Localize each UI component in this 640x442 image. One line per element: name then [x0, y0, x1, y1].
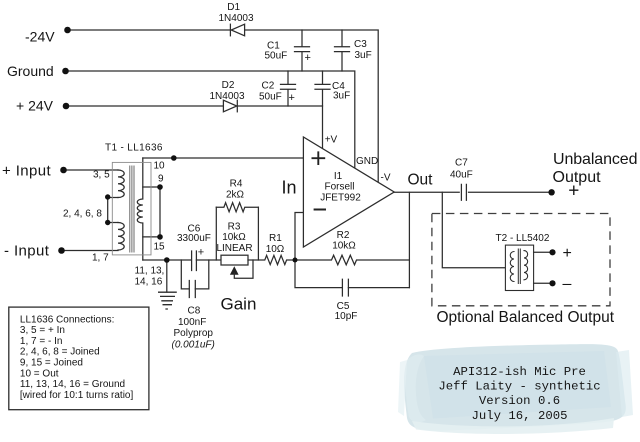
capacitor C6	[192, 251, 197, 271]
wire: - input to T1	[62, 250, 119, 252]
svg-text:3, 5 = + In: 3, 5 = + In	[20, 325, 65, 336]
svg-text:C2: C2	[262, 80, 275, 91]
transformer T2 secondary winding	[524, 251, 528, 280]
svg-text:2, 4, 6, 8: 2, 4, 6, 8	[63, 209, 102, 220]
wire: feedback node up to inverting input	[295, 213, 303, 261]
node: T1 tap upper (2,4,6,8)	[105, 194, 110, 199]
svg-text:14, 16: 14, 16	[135, 277, 163, 288]
svg-text:+ Input: + Input	[2, 163, 52, 180]
svg-text:50uF: 50uF	[259, 92, 282, 103]
wire: +24V rail right segment	[238, 105, 323, 107]
svg-text:D1: D1	[227, 2, 240, 13]
svg-text:+V: +V	[325, 134, 338, 145]
wire: C6 to R3	[196, 259, 221, 261]
wire: pin 9 stub	[143, 186, 160, 188]
transformer T2 primary winding	[510, 252, 514, 282]
svg-text:C8: C8	[188, 306, 201, 317]
wire: T1 tap stub upper	[108, 197, 118, 199]
node: Ground terminal	[62, 68, 69, 75]
wire: feedback riser from Out	[408, 192, 410, 287]
svg-text:D2: D2	[222, 80, 235, 91]
svg-text:10kΩ: 10kΩ	[222, 232, 246, 243]
svg-text:+: +	[198, 246, 204, 258]
svg-text:3, 5: 3, 5	[93, 170, 110, 181]
svg-text:-24V: -24V	[25, 29, 55, 45]
wire: R4 left riser	[215, 207, 217, 260]
capacitor C5	[342, 279, 348, 296]
wire: +24V rail left segment	[66, 105, 223, 107]
svg-text:Polyprop: Polyprop	[174, 328, 214, 339]
svg-text:Optional Balanced Output: Optional Balanced Output	[437, 309, 615, 326]
svg-text:1, 7 = - In: 1, 7 = - In	[20, 336, 63, 347]
svg-text:10 = Out: 10 = Out	[20, 368, 59, 379]
transformer T1 primary bottom winding	[118, 223, 124, 251]
svg-text:+: +	[563, 245, 572, 262]
capacitor C3	[335, 30, 350, 71]
capacitor C2	[281, 71, 296, 106]
wire: node to C6	[167, 259, 192, 261]
svg-text:3uF: 3uF	[355, 50, 372, 61]
svg-text:–: –	[563, 276, 572, 293]
svg-text:10Ω: 10Ω	[266, 244, 285, 255]
transformer T2 core	[518, 249, 520, 284]
svg-text:9, 15 = Joined: 9, 15 = Joined	[20, 358, 83, 369]
svg-text:9: 9	[158, 174, 164, 185]
svg-text:R1: R1	[269, 233, 282, 244]
wire: pin 9 to pin 15 join	[159, 187, 161, 237]
capacitor C7	[461, 184, 466, 200]
potentiometer R3 wiper	[230, 260, 253, 278]
node: feedback node	[293, 258, 298, 263]
svg-text:11, 13, 14, 16 = Ground: 11, 13, 14, 16 = Ground	[20, 379, 125, 390]
transformer T1 core	[130, 166, 134, 253]
node: pin 15	[157, 234, 163, 240]
svg-text:10pF: 10pF	[335, 311, 358, 322]
svg-text:1, 7: 1, 7	[92, 253, 109, 264]
transformer T2 box	[505, 245, 533, 290]
node: pin 9	[157, 184, 163, 190]
svg-text:In: In	[282, 178, 297, 198]
node: +24V terminal	[63, 103, 70, 110]
svg-text:C7: C7	[455, 158, 468, 169]
wire: -24V rail left segment	[68, 29, 231, 31]
svg-text:LINEAR: LINEAR	[216, 243, 252, 254]
svg-text:I1: I1	[334, 171, 343, 182]
wire: R4 right riser	[257, 207, 259, 260]
wire: T1 tap vertical	[107, 197, 109, 223]
svg-text:10kΩ: 10kΩ	[332, 241, 356, 252]
svg-text:10: 10	[154, 161, 166, 172]
svg-text:T1 - LL1636: T1 - LL1636	[105, 143, 163, 154]
svg-text:50uF: 50uF	[265, 51, 288, 62]
svg-text:LL1636 Connections:: LL1636 Connections:	[20, 314, 115, 325]
resistor R4	[216, 203, 258, 212]
svg-text:3uF: 3uF	[333, 91, 350, 102]
diode D1	[230, 24, 244, 36]
wire: C5 to feedback riser	[348, 287, 409, 289]
node: unbalanced output terminal	[548, 189, 554, 195]
svg-text:1N4003: 1N4003	[218, 13, 253, 24]
op-amp I1 triangle	[303, 137, 394, 247]
dashed box: optional balanced output	[432, 214, 610, 306]
svg-text:100nF: 100nF	[178, 317, 206, 328]
svg-text:Unbalanced: Unbalanced	[553, 151, 637, 168]
svg-text:(0.001uF): (0.001uF)	[172, 340, 215, 351]
svg-text:R2: R2	[337, 230, 350, 241]
wire: Out line	[394, 191, 459, 193]
capacitor C4 and +V riser	[315, 71, 330, 149]
transformer T1 secondary winding	[137, 158, 142, 260]
svg-text:Jeff Laity - synthetic: Jeff Laity - synthetic	[438, 380, 600, 394]
diode D2	[223, 100, 237, 112]
note box LL1636 connections	[9, 307, 149, 410]
svg-text:2kΩ: 2kΩ	[226, 190, 245, 201]
title note blob	[398, 344, 633, 434]
wire: ground node to ground symbol stem	[166, 260, 168, 292]
wire: + input to T1	[64, 169, 119, 171]
svg-text:API312-ish Mic Pre: API312-ish Mic Pre	[453, 365, 586, 379]
svg-text:11, 13,: 11, 13,	[135, 266, 165, 277]
node: -24V terminal	[64, 27, 71, 34]
wire: C5 branch	[295, 260, 342, 288]
svg-text:- Input: - Input	[4, 243, 50, 260]
svg-text:R4: R4	[230, 179, 243, 190]
wire: C8 branch left drop	[181, 260, 189, 289]
svg-text:40uF: 40uF	[450, 170, 473, 181]
svg-text:3300uF: 3300uF	[177, 233, 211, 244]
svg-text:1N4003: 1N4003	[209, 91, 244, 102]
svg-text:Forsell: Forsell	[324, 182, 354, 193]
node: pin 10	[171, 155, 177, 161]
wire: Ground rail and GND riser	[66, 71, 355, 168]
op-amp + input symbol	[312, 151, 326, 165]
svg-text:C3: C3	[354, 39, 367, 50]
svg-text:+: +	[568, 180, 579, 201]
transformer T1 box	[112, 162, 151, 255]
svg-text:Out: Out	[408, 172, 434, 189]
capacitor C8	[189, 281, 195, 298]
svg-text:Ground: Ground	[7, 63, 54, 79]
node: T1 tap lower (2,4,6,8)	[105, 220, 110, 225]
svg-text:-V: -V	[381, 173, 391, 184]
capacitor C1	[295, 30, 310, 71]
op-amp - input symbol	[314, 209, 326, 211]
node: + Input terminal	[60, 167, 67, 174]
svg-text:Gain: Gain	[221, 295, 257, 314]
node: T1 ground node (11,13,14,16)	[164, 257, 170, 263]
svg-text:2, 4, 6, 8 = Joined: 2, 4, 6, 8 = Joined	[20, 347, 100, 358]
svg-text:T2 - LL5402: T2 - LL5402	[496, 233, 550, 244]
wire: T2 - output	[534, 282, 553, 284]
svg-text:15: 15	[154, 242, 166, 253]
svg-text:+ 24V: + 24V	[16, 98, 54, 114]
svg-text:+: +	[305, 52, 311, 64]
svg-text:[wired for 10:1 turns ratio]: [wired for 10:1 turns ratio]	[20, 390, 134, 401]
wire: C7 to unbalanced output	[469, 191, 552, 193]
node: T2 - output terminal	[549, 280, 555, 286]
svg-text:+: +	[289, 92, 295, 104]
wire: pin 15 stub	[143, 236, 160, 238]
wire: branch to T2	[442, 192, 505, 267]
wire: C8 branch right rise	[195, 260, 209, 289]
svg-text:JFET992: JFET992	[320, 193, 361, 204]
svg-text:Version 0.6: Version 0.6	[479, 394, 560, 408]
potentiometer R3 body	[221, 255, 248, 265]
wire: pin 10 out to op-amp + input	[143, 157, 304, 159]
wire: T1 bottom to ground node	[143, 259, 167, 261]
node: T2 + output terminal	[549, 249, 555, 255]
title text	[438, 365, 600, 423]
wire: T2 + output	[534, 251, 553, 253]
wire: T1 tap stub lower	[108, 222, 118, 224]
svg-text:GND: GND	[356, 156, 378, 167]
wire: -24V rail right segment and -V riser	[245, 30, 378, 182]
ground symbol	[158, 292, 177, 309]
resistor R2	[295, 255, 409, 265]
node: - Input terminal	[58, 247, 65, 254]
transformer T1 primary top winding	[118, 170, 124, 198]
svg-text:July 16, 2005: July 16, 2005	[472, 409, 568, 423]
resistor R1	[248, 255, 295, 264]
